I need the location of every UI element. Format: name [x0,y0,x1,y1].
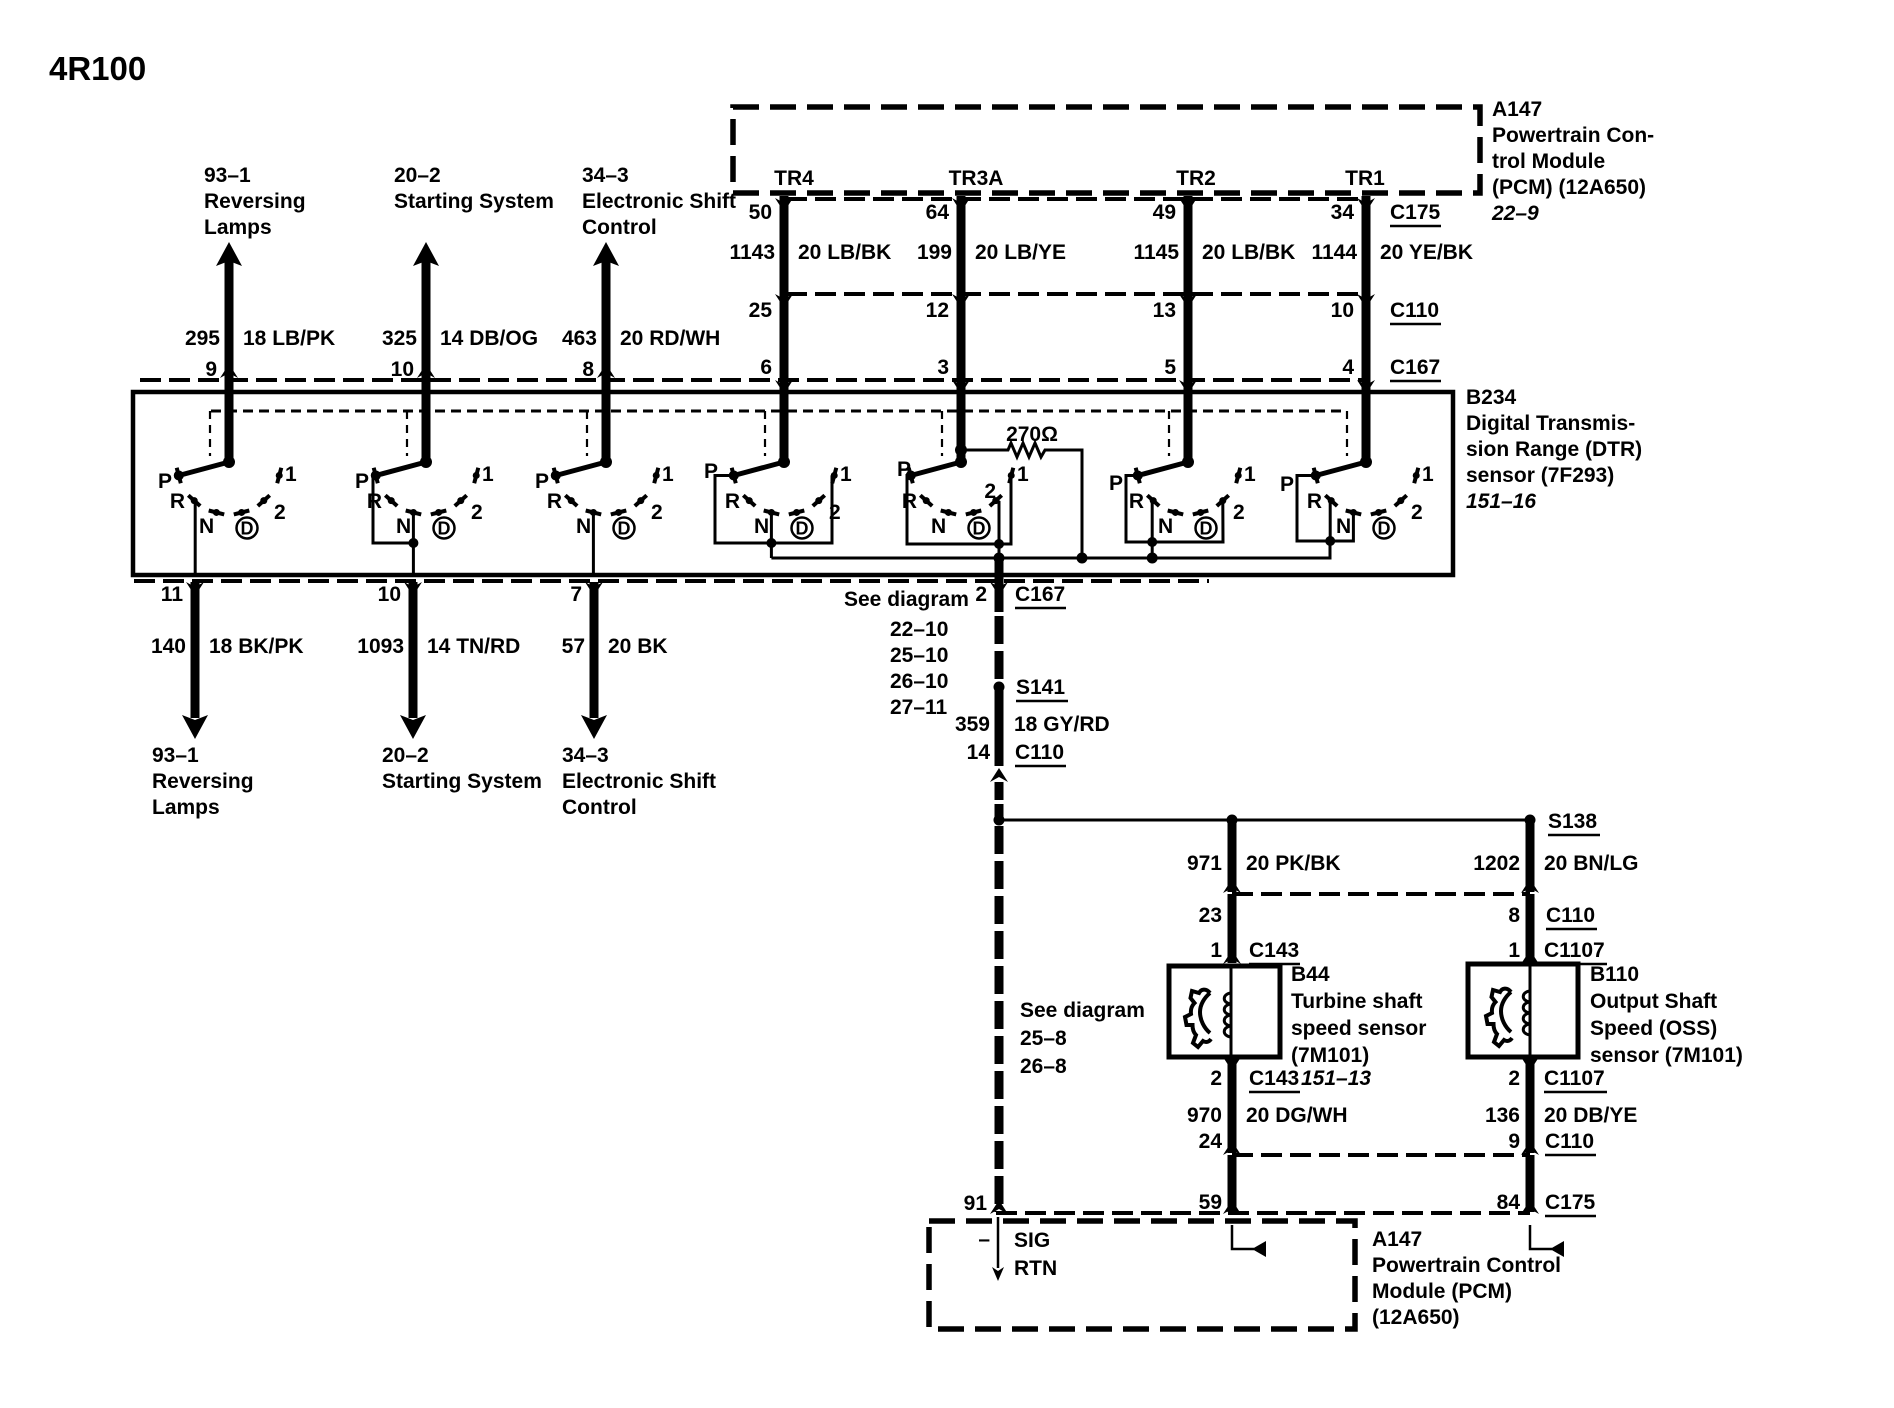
resistor 270 ohm [961,423,1082,558]
PCM pin TR2 wire [1133,167,1295,462]
svg-text:151–16: 151–16 [1466,490,1536,513]
svg-text:93–1: 93–1 [152,744,199,767]
wire B44 pin 2, 970 20 DG/WH [1187,1057,1371,1155]
svg-text:SIG: SIG [1014,1229,1050,1252]
svg-text:C167: C167 [1390,356,1440,379]
svg-text:18 BK/PK: 18 BK/PK [209,635,304,658]
svg-text:P: P [897,458,911,481]
svg-text:1: 1 [1508,939,1520,962]
svg-text:Starting System: Starting System [394,190,554,213]
PCM module A147 dashed box (top) [733,107,1480,193]
svg-text:64: 64 [926,201,950,224]
DTR switch S3 (electronic shift control, output N) [535,456,674,575]
svg-text:sion Range (DTR): sion Range (DTR) [1466,438,1642,461]
svg-text:P: P [1280,473,1294,496]
svg-text:20 PK/BK: 20 PK/BK [1246,852,1341,875]
svg-text:4R100: 4R100 [49,50,146,87]
connector C167 dashed line (bottom of B234) [134,579,1209,583]
wire 971 20 PK/BK [1187,820,1341,893]
svg-text:14 TN/RD: 14 TN/RD [427,635,520,658]
svg-text:34–3: 34–3 [582,164,629,187]
svg-text:26–8: 26–8 [1020,1055,1067,1078]
svg-text:10: 10 [378,583,401,606]
svg-text:D: D [1378,519,1391,539]
svg-text:N: N [1158,515,1173,538]
wire pin 23 to B44 [1199,894,1300,964]
wire 1202 20 BN/LG [1473,820,1638,893]
svg-text:23: 23 [1199,904,1222,927]
svg-text:971: 971 [1187,852,1222,875]
svg-text:trol Module: trol Module [1492,150,1605,173]
svg-text:C110: C110 [1546,904,1595,927]
svg-text:12: 12 [926,299,949,322]
DTR switch S1 (reversing lamps, output R) [158,456,297,575]
connector C175 dashed line (bottom) [996,1211,1530,1215]
svg-text:Electronic Shift: Electronic Shift [562,770,716,793]
svg-text:3: 3 [937,356,949,379]
svg-text:140: 140 [151,635,186,658]
svg-text:1: 1 [482,463,494,486]
wire pin 8 to B110 [1508,894,1607,964]
svg-text:C175: C175 [1390,201,1441,224]
svg-text:(7M101): (7M101) [1291,1044,1369,1067]
svg-text:1093: 1093 [357,635,404,658]
svg-text:TR4: TR4 [774,167,814,190]
splice S141 [994,676,1069,701]
svg-text:463: 463 [562,327,597,350]
svg-text:R: R [170,490,185,513]
svg-text:136: 136 [1485,1104,1520,1127]
svg-text:325: 325 [382,327,417,350]
svg-text:R: R [547,490,562,513]
svg-text:1: 1 [1422,463,1434,486]
svg-text:sensor (7F293): sensor (7F293) [1466,464,1614,487]
svg-text:TR1: TR1 [1345,167,1385,190]
svg-text:13: 13 [1153,299,1176,322]
label B44 Turbine shaft speed sensor [1291,963,1426,1067]
wire starting system feed (bottom) [357,582,542,793]
svg-text:D: D [973,519,986,539]
svg-text:14 DB/OG: 14 DB/OG [440,327,538,350]
svg-text:C1107: C1107 [1544,939,1605,962]
svg-text:20 LB/YE: 20 LB/YE [975,241,1066,264]
svg-text:34: 34 [1331,201,1355,224]
PCM pin TR1 wire [1311,167,1473,462]
svg-text:A147: A147 [1372,1228,1422,1251]
wire pin 59 to PCM [1199,1155,1241,1214]
svg-text:–: – [978,1228,990,1251]
svg-text:(12A650): (12A650) [1372,1306,1460,1329]
svg-text:Digital Transmis-: Digital Transmis- [1466,412,1635,435]
svg-text:50: 50 [749,201,772,224]
DTR switch S2 (starting system, output N, P strapped) [355,456,494,575]
svg-text:295: 295 [185,327,220,350]
svg-text:See diagram: See diagram [844,588,969,611]
svg-text:270Ω: 270Ω [1006,423,1058,446]
title 4R100 [49,50,146,87]
label A147 Powertrain Control Module (PCM) text block [1491,98,1654,225]
svg-text:Reversing: Reversing [152,770,254,793]
svg-text:20 LB/BK: 20 LB/BK [798,241,891,264]
svg-text:14: 14 [967,741,991,764]
DTR switch S6 (TR2, bracket P-2, output R to bus) [1109,456,1256,564]
svg-text:20 BK: 20 BK [608,635,668,658]
svg-text:RTN: RTN [1014,1257,1057,1280]
wire electronic shift control feed (top) [562,164,736,462]
svg-text:D: D [618,519,631,539]
svg-text:1: 1 [1017,463,1029,486]
svg-text:359: 359 [955,713,990,736]
DTR sensor B234 box outline [133,392,1453,575]
svg-text:(PCM) (12A650): (PCM) (12A650) [1492,176,1646,199]
svg-text:B234: B234 [1466,386,1517,409]
wire C167 pin 2 sensor return [844,558,1066,719]
svg-text:N: N [199,515,214,538]
svg-text:26–10: 26–10 [890,670,948,693]
svg-text:S141: S141 [1016,676,1065,699]
svg-text:4: 4 [1342,356,1354,379]
svg-text:N: N [931,515,946,538]
svg-text:Speed (OSS): Speed (OSS) [1590,1017,1717,1040]
wire starting system feed (top) [382,164,554,462]
wire reversing lamps feed (bottom) [151,582,304,819]
svg-text:See diagram: See diagram [1020,999,1145,1022]
svg-text:20–2: 20–2 [394,164,441,187]
svg-text:sensor (7M101): sensor (7M101) [1590,1044,1743,1067]
svg-text:Module (PCM): Module (PCM) [1372,1280,1512,1303]
svg-text:N: N [754,515,769,538]
svg-text:N: N [396,515,411,538]
svg-text:6: 6 [760,356,772,379]
svg-text:1143: 1143 [729,241,775,264]
label see diagram 25-8 26-8 [1020,999,1145,1078]
svg-text:20 LB/BK: 20 LB/BK [1202,241,1295,264]
wire electronic shift control feed (bottom) [562,582,716,819]
svg-text:1: 1 [662,463,674,486]
svg-text:22–9: 22–9 [1491,202,1539,225]
svg-text:91: 91 [964,1192,988,1215]
PCM pin 91 SIG RTN [964,1192,1058,1281]
svg-text:1: 1 [840,463,852,486]
connector C110 dashed line (sensor feeds) [1232,892,1530,896]
svg-text:C143: C143 [1249,939,1299,962]
svg-text:49: 49 [1153,201,1176,224]
svg-text:D: D [241,519,254,539]
wire pin 84 to PCM [1497,1155,1596,1216]
svg-text:A147: A147 [1492,98,1542,121]
svg-text:Powertrain Con-: Powertrain Con- [1492,124,1654,147]
svg-text:20–2: 20–2 [382,744,429,767]
svg-text:10: 10 [1331,299,1354,322]
svg-text:N: N [1336,515,1351,538]
svg-text:27–11: 27–11 [890,696,948,719]
svg-text:5: 5 [1164,356,1176,379]
svg-text:1: 1 [285,463,297,486]
svg-text:2: 2 [274,501,286,524]
svg-text:25–10: 25–10 [890,644,948,667]
PCM module A147 dashed box (bottom) [929,1221,1355,1329]
svg-text:C110: C110 [1545,1130,1594,1153]
svg-text:11: 11 [161,583,184,606]
svg-text:1: 1 [1244,463,1256,486]
svg-text:Control: Control [562,796,637,819]
wire below C110 pin 14 [994,782,1005,826]
svg-text:Lamps: Lamps [204,216,272,239]
svg-text:S138: S138 [1548,810,1597,833]
svg-text:C143: C143 [1249,1067,1299,1090]
svg-text:Turbine shaft: Turbine shaft [1291,990,1422,1013]
PCM internal arrow (pin 84) [1530,1225,1564,1257]
svg-text:D: D [796,519,809,539]
connector C110 dashed line (sensor outputs) [1232,1153,1530,1157]
svg-text:2: 2 [984,480,996,503]
svg-text:1144: 1144 [1311,241,1357,264]
svg-text:D: D [1200,519,1213,539]
svg-text:25–8: 25–8 [1020,1027,1067,1050]
PCM pin TR4 wire [729,167,891,462]
PCM internal arrow (pin 59) [1232,1225,1266,1257]
svg-text:P: P [1109,472,1123,495]
label B234 Digital Transmission Range (DTR) sensor text block [1466,386,1642,513]
wire 359 18 GY/RD [955,690,1110,782]
label B110 Output Shaft Speed (OSS) sensor [1590,963,1743,1067]
svg-text:N: N [576,515,591,538]
svg-text:22–10: 22–10 [890,618,948,641]
svg-text:R: R [725,490,740,513]
svg-text:10: 10 [391,358,414,381]
DTR switch S7 (TR1, bracket P-N, output R to bus) [1280,456,1434,546]
sensor common bus wire (inside B234) [771,541,1330,564]
svg-text:199: 199 [917,241,952,264]
svg-text:9: 9 [1508,1130,1520,1153]
DTR switch S5 (TR3A, bracket P-1, output 2 to C167 pin 2) [897,444,1029,558]
svg-text:2: 2 [975,583,987,606]
svg-text:Powertrain Control: Powertrain Control [1372,1254,1561,1277]
DTR switch S4 (TR4, bracket P-1, output N to bus) [704,456,852,558]
svg-text:Output Shaft: Output Shaft [1590,990,1717,1013]
svg-text:B44: B44 [1291,963,1330,986]
wire reversing lamps feed (top) [185,164,335,462]
svg-text:84: 84 [1497,1191,1521,1214]
svg-text:2: 2 [1210,1067,1222,1090]
svg-text:Reversing: Reversing [204,190,306,213]
svg-text:C167: C167 [1015,583,1065,606]
svg-text:Starting System: Starting System [382,770,542,793]
wire B110 pin 2, 136 20 DB/YE [1485,1057,1637,1155]
svg-text:1145: 1145 [1133,241,1179,264]
svg-text:34–3: 34–3 [562,744,609,767]
svg-text:C110: C110 [1015,741,1064,764]
svg-text:1202: 1202 [1473,852,1520,875]
wire (dashed) down to splice S141 [995,616,1004,683]
svg-text:TR3A: TR3A [949,167,1004,190]
svg-text:18 GY/RD: 18 GY/RD [1014,713,1110,736]
svg-text:20 RD/WH: 20 RD/WH [620,327,720,350]
svg-text:20 BN/LG: 20 BN/LG [1544,852,1639,875]
svg-text:C110: C110 [1390,299,1439,322]
svg-text:57: 57 [562,635,585,658]
svg-text:25: 25 [749,299,773,322]
svg-text:R: R [1307,490,1322,513]
svg-text:B110: B110 [1590,963,1639,986]
svg-text:20 DB/YE: 20 DB/YE [1544,1104,1637,1127]
label A147 Powertrain Control Module (12A650) text block [1372,1228,1561,1329]
connector C167 dashed line (top) [140,356,1441,381]
svg-text:151–13: 151–13 [1301,1067,1371,1090]
svg-text:2: 2 [1233,501,1245,524]
mechanical linkage dashed line inside DTR sensor [210,411,1347,456]
svg-text:Electronic Shift: Electronic Shift [582,190,736,213]
PCM pin TR3A wire [917,167,1066,462]
svg-text:D: D [438,519,451,539]
svg-text:20 DG/WH: 20 DG/WH [1246,1104,1348,1127]
svg-text:C1107: C1107 [1544,1067,1605,1090]
output shaft speed sensor B110 [1468,964,1578,1057]
svg-text:24: 24 [1199,1130,1223,1153]
svg-text:1: 1 [1210,939,1222,962]
wire (dashed) down to PCM pin 91 [990,826,1008,1214]
svg-text:93–1: 93–1 [204,164,251,187]
svg-text:970: 970 [1187,1104,1222,1127]
svg-text:8: 8 [1508,904,1520,927]
svg-text:TR2: TR2 [1176,167,1216,190]
svg-text:9: 9 [205,358,217,381]
connector C175 dashed line (top) [786,199,1441,226]
svg-text:18 LB/PK: 18 LB/PK [243,327,335,350]
svg-text:2: 2 [1508,1067,1520,1090]
svg-text:C175: C175 [1545,1191,1596,1214]
svg-text:2: 2 [1411,501,1423,524]
svg-text:59: 59 [1199,1191,1222,1214]
splice S138 and feed line [999,810,1600,835]
svg-text:2: 2 [471,501,483,524]
svg-text:Control: Control [582,216,657,239]
turbine shaft speed sensor B44 [1169,966,1280,1057]
svg-text:8: 8 [582,358,594,381]
svg-text:Lamps: Lamps [152,796,220,819]
svg-text:2: 2 [651,501,663,524]
svg-text:R: R [902,490,917,513]
svg-text:R: R [1129,490,1144,513]
svg-text:7: 7 [570,583,582,606]
svg-text:20 YE/BK: 20 YE/BK [1380,241,1473,264]
svg-text:speed sensor: speed sensor [1291,1017,1426,1040]
connector C110 dashed line (top) [786,294,1441,324]
